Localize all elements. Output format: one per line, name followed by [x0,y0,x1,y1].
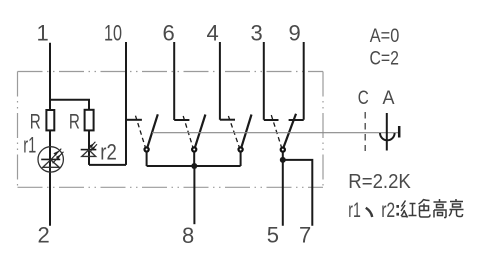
switch S1 stub [146,152,148,166]
switch S1 blade [148,114,158,147]
note r1, r2 caption [348,199,399,222]
switch S3 stub [240,152,242,166]
hanzi gao (tall) [434,199,447,218]
switch S3 pivot [239,147,243,151]
switch S3 blade [242,115,252,147]
junction S4 common [280,157,286,163]
svg-text:2: 2 [38,223,50,248]
LED r2 arrow 1 [89,142,96,149]
pin 9 fixed contact [289,119,304,121]
switch S4 blade [284,114,296,147]
svg-text:10: 10 [104,21,122,46]
terminal end bar [398,126,401,138]
LED r1 arrow 2 [53,152,64,163]
pin 3 wire [263,42,265,120]
svg-text:C: C [358,87,369,109]
pin 6 wire [173,42,175,120]
svg-text:r1: r1 [348,199,361,222]
switch S4 pivot [281,148,285,152]
LED r1 arrow 1 [50,149,62,161]
svg-text:R=2.2K: R=2.2K [348,170,411,193]
svg-text:9: 9 [289,21,301,46]
terminal A socket arc [380,133,395,140]
svg-text:6: 6 [163,21,175,46]
switch S2 blade [195,115,205,147]
wire to pin 7 [283,160,313,226]
resistor R2 [85,110,94,131]
pin 9 wire [303,42,305,120]
svg-text:7: 7 [299,223,311,248]
LED r1 triangle [43,160,59,168]
svg-text:C=2: C=2 [370,48,400,70]
terminal A wire [386,113,388,151]
common bus [147,165,241,167]
switch S3 dashed position [228,116,239,147]
LED r2 triangle [82,150,96,157]
component outline box [18,72,324,188]
wire R2 to r2 [88,130,90,165]
svg-text:8: 8 [182,223,194,248]
svg-text:R: R [69,110,80,134]
switch S1 pivot [145,147,149,151]
switch S2 pivot [192,147,196,151]
switch S3 fixed contact (pin 4) [220,119,235,121]
pin 8 wire [193,166,195,224]
switch S2 dashed position [183,116,193,147]
pin 4 wire [219,42,221,120]
wire r2 to pin10 line [89,164,126,166]
switch S1 fixed contact (pin 10) [126,119,142,121]
switch S2 fixed contact (pin 6) [174,119,189,121]
LED r2 arrow 2 [91,144,97,150]
hanzi liang (bright) [449,199,464,217]
svg-text:5: 5 [267,223,279,248]
switch S4 fixed contact (pin 3) [264,119,279,121]
switch S4 dashed position [271,115,281,147]
ideographic comma [366,208,372,217]
svg-text:3: 3 [251,21,263,46]
svg-text:4: 4 [207,21,219,46]
LED r1 circle [38,147,63,172]
svg-text:1: 1 [37,21,49,46]
LED r1 cathode bar [41,158,60,160]
switch S2 stub [193,152,195,166]
svg-text:R: R [30,110,41,134]
hanzi hong (red) [401,201,417,218]
svg-text:r1: r1 [23,133,36,158]
svg-text:r2: r2 [100,140,117,165]
pin 10 wire [125,42,127,165]
svg-text:r2: r2 [381,199,395,222]
svg-text:A: A [383,87,395,109]
resistor R1 [46,110,54,130]
LED r2 cathode bar [81,149,97,151]
junction bus/pin8 [191,163,197,169]
switch S1 dashed position [136,116,146,147]
branch wire to r2 [50,100,89,110]
hanzi se (color) [419,200,431,218]
terminal C dashed line [364,112,366,151]
svg-text:A=0: A=0 [370,25,400,47]
actuator line [152,132,399,134]
switch S4 common wire (pin 5) [282,152,284,226]
pin 1 wire [49,43,51,226]
